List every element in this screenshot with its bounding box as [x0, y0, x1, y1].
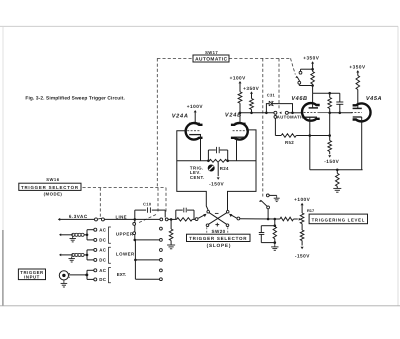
- svg-text:Fig. 3-2. Simplified Sweep Tri: Fig. 3-2. Simplified Sweep Trigger Circu…: [25, 96, 125, 102]
- svg-text:(MODE): (MODE): [44, 192, 63, 197]
- svg-text:EXT.: EXT.: [117, 272, 126, 277]
- svg-text:+350V: +350V: [243, 86, 260, 91]
- svg-text:C31: C31: [267, 93, 276, 98]
- svg-text:-150V: -150V: [209, 182, 224, 187]
- svg-text:AC: AC: [99, 268, 107, 273]
- svg-text:R52: R52: [285, 140, 294, 145]
- svg-text:-150V: -150V: [295, 253, 310, 258]
- svg-text:CENT.: CENT.: [190, 175, 205, 180]
- svg-text:C10: C10: [143, 201, 152, 206]
- svg-text:SW17: SW17: [205, 50, 218, 55]
- svg-text:V46B: V46B: [291, 96, 307, 102]
- svg-text:TRIGGERING LEVEL: TRIGGERING LEVEL: [312, 218, 365, 223]
- svg-text:6.3VAC: 6.3VAC: [69, 214, 88, 219]
- svg-text:TRIGGER SELECTOR: TRIGGER SELECTOR: [21, 185, 79, 190]
- svg-text:SW20: SW20: [212, 229, 226, 234]
- svg-text:AC: AC: [99, 227, 107, 232]
- svg-text:+100V: +100V: [230, 76, 247, 81]
- svg-text:DC: DC: [99, 277, 107, 282]
- svg-text:INPUT: INPUT: [24, 275, 40, 280]
- svg-text:+350V: +350V: [303, 56, 320, 61]
- svg-text:DC: DC: [99, 238, 107, 243]
- svg-text:AC: AC: [99, 248, 107, 253]
- svg-text:DC: DC: [99, 258, 107, 263]
- svg-text:+100V: +100V: [187, 104, 204, 109]
- svg-text:V45A: V45A: [366, 96, 382, 102]
- svg-text:LINE: LINE: [115, 214, 126, 219]
- svg-text:+350V: +350V: [349, 65, 366, 70]
- svg-text:+100V: +100V: [294, 197, 311, 202]
- svg-text:UPPER: UPPER: [116, 232, 134, 237]
- svg-text:V24A: V24A: [172, 113, 189, 119]
- svg-text:AUTOMATIC: AUTOMATIC: [277, 115, 305, 120]
- svg-text:(SLOPE): (SLOPE): [207, 243, 232, 248]
- svg-text:R24: R24: [220, 166, 229, 171]
- svg-text:-150V: -150V: [324, 159, 339, 164]
- svg-text:SW16: SW16: [46, 177, 60, 182]
- svg-text:R17: R17: [307, 208, 314, 213]
- svg-text:AUTOMATIC: AUTOMATIC: [195, 56, 227, 62]
- svg-text:LOWER: LOWER: [116, 252, 135, 257]
- svg-text:TRIGGER SELECTOR: TRIGGER SELECTOR: [189, 236, 247, 241]
